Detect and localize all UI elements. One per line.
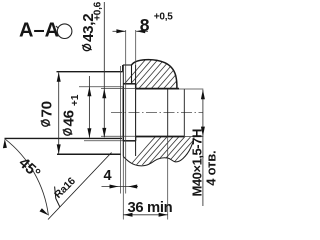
svg-text:+1: +1: [70, 94, 81, 106]
svg-text:А–А: А–А: [19, 20, 59, 42]
svg-text:8: 8: [140, 15, 150, 35]
svg-text:+0,5: +0,5: [154, 12, 173, 23]
svg-text:M40×1,5-7H: M40×1,5-7H: [189, 129, 204, 196]
svg-text:4: 4: [104, 168, 112, 184]
svg-text:70: 70: [39, 101, 56, 117]
svg-text:46: 46: [61, 110, 78, 126]
svg-text:36 min: 36 min: [128, 200, 173, 216]
svg-text:+0,6: +0,6: [93, 1, 104, 20]
svg-text:4 отв.: 4 отв.: [203, 151, 218, 186]
